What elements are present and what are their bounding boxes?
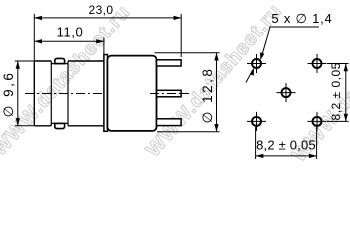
svg-text:∅ 9,6: ∅ 9,6 bbox=[1, 71, 16, 118]
dimension 11,0: extension line right bbox=[103, 37, 105, 54]
side view: bayonet lug top bbox=[55, 58, 65, 63]
svg-text:5 x ∅ 1,4: 5 x ∅ 1,4 bbox=[271, 11, 332, 26]
dimension 23,0: extension line right bbox=[180, 14, 182, 57]
dimension dia 9,6: dimension line bbox=[17, 61, 19, 126]
side view: top pin bbox=[157, 60, 182, 66]
side view: shell top edge bbox=[34, 60, 51, 62]
hole BR crosshair bbox=[308, 112, 327, 131]
dimension 8,2 bottom: right arrow bbox=[309, 154, 317, 158]
svg-text:∅ 12,8: ∅ 12,8 bbox=[200, 67, 215, 124]
side view: shell bottom edge bbox=[34, 125, 51, 127]
leader tail arrow bbox=[250, 67, 254, 75]
dimension 8,2 bottom: extension line right bbox=[316, 127, 318, 159]
side view: rear shell top edge bbox=[68, 60, 104, 62]
hole BL crosshair bbox=[247, 112, 266, 131]
dimension 11,0: right arrow bbox=[96, 39, 104, 43]
dimension dia 12,8: extension line bottom bbox=[157, 131, 220, 133]
dimension 8,2 right: top arrow bbox=[344, 64, 348, 72]
side view: centerline over middle pin bbox=[150, 93, 189, 95]
svg-text:8,2 ± 0,05: 8,2 ± 0,05 bbox=[256, 137, 316, 152]
dimension 23,0: extension line left bbox=[33, 14, 35, 61]
side view: groove right edge bbox=[67, 61, 69, 126]
hole TL crosshair bbox=[247, 54, 266, 73]
side view: front face bbox=[33, 61, 35, 126]
svg-text:23,0: 23,0 bbox=[89, 3, 114, 17]
dimension dia 12,8: bottom arrow bbox=[214, 124, 218, 132]
side view: groove left edge bbox=[50, 61, 52, 126]
side view: bottom pin bbox=[157, 119, 182, 126]
dimension 8,2 bottom: dimension line bbox=[256, 155, 317, 157]
dimension 8,2 right: bottom arrow bbox=[344, 114, 348, 122]
dimension dia 9,6: extension line bottom bbox=[15, 125, 35, 127]
side view: groove top edge bbox=[51, 63, 68, 65]
side view: groove bottom edge bbox=[51, 122, 68, 124]
hole center crosshair bbox=[277, 83, 296, 102]
dimension 8,2 right: extension line top bbox=[327, 63, 349, 65]
dimension 8,2 bottom: left arrow bbox=[256, 154, 264, 158]
dimension 23,0: dimension line bbox=[34, 17, 181, 19]
svg-text:8,2 ± 0,05: 8,2 ± 0,05 bbox=[329, 62, 343, 120]
side view: main body bbox=[107, 56, 156, 131]
dimension dia 12,8: dimension line bbox=[216, 53, 218, 132]
side view: middle pin bbox=[157, 90, 182, 97]
leader arrow at hole TL bbox=[260, 52, 264, 60]
dimension 8,2 right: extension line bottom bbox=[327, 120, 349, 122]
dimension 8,2 bottom: extension line left bbox=[255, 127, 257, 159]
dimension 11,0: dimension line bbox=[34, 40, 104, 42]
hole TR crosshair bbox=[308, 54, 327, 73]
dimension 23,0: left arrow bbox=[34, 16, 42, 20]
dimension dia 9,6: bottom arrow bbox=[16, 118, 20, 126]
side view: flange bbox=[104, 55, 108, 132]
leader tail lower-left bbox=[246, 70, 253, 82]
side view: rear shell bottom edge bbox=[68, 125, 104, 127]
side view: bayonet lug bottom bbox=[55, 123, 65, 128]
dimension dia 9,6: extension line top bbox=[15, 60, 35, 62]
dimension dia 12,8: extension line top bbox=[155, 52, 220, 54]
svg-text:11,0: 11,0 bbox=[57, 24, 84, 39]
leader line under label bbox=[261, 27, 319, 57]
side view: centerline bbox=[25, 93, 189, 95]
dimension 23,0: right arrow bbox=[174, 16, 182, 20]
dimension dia 9,6: top arrow bbox=[16, 61, 20, 69]
dimension dia 12,8: top arrow bbox=[214, 53, 218, 61]
dimension 11,0: left arrow bbox=[34, 39, 42, 43]
dimension 8,2 right: dimension line bbox=[345, 64, 347, 122]
